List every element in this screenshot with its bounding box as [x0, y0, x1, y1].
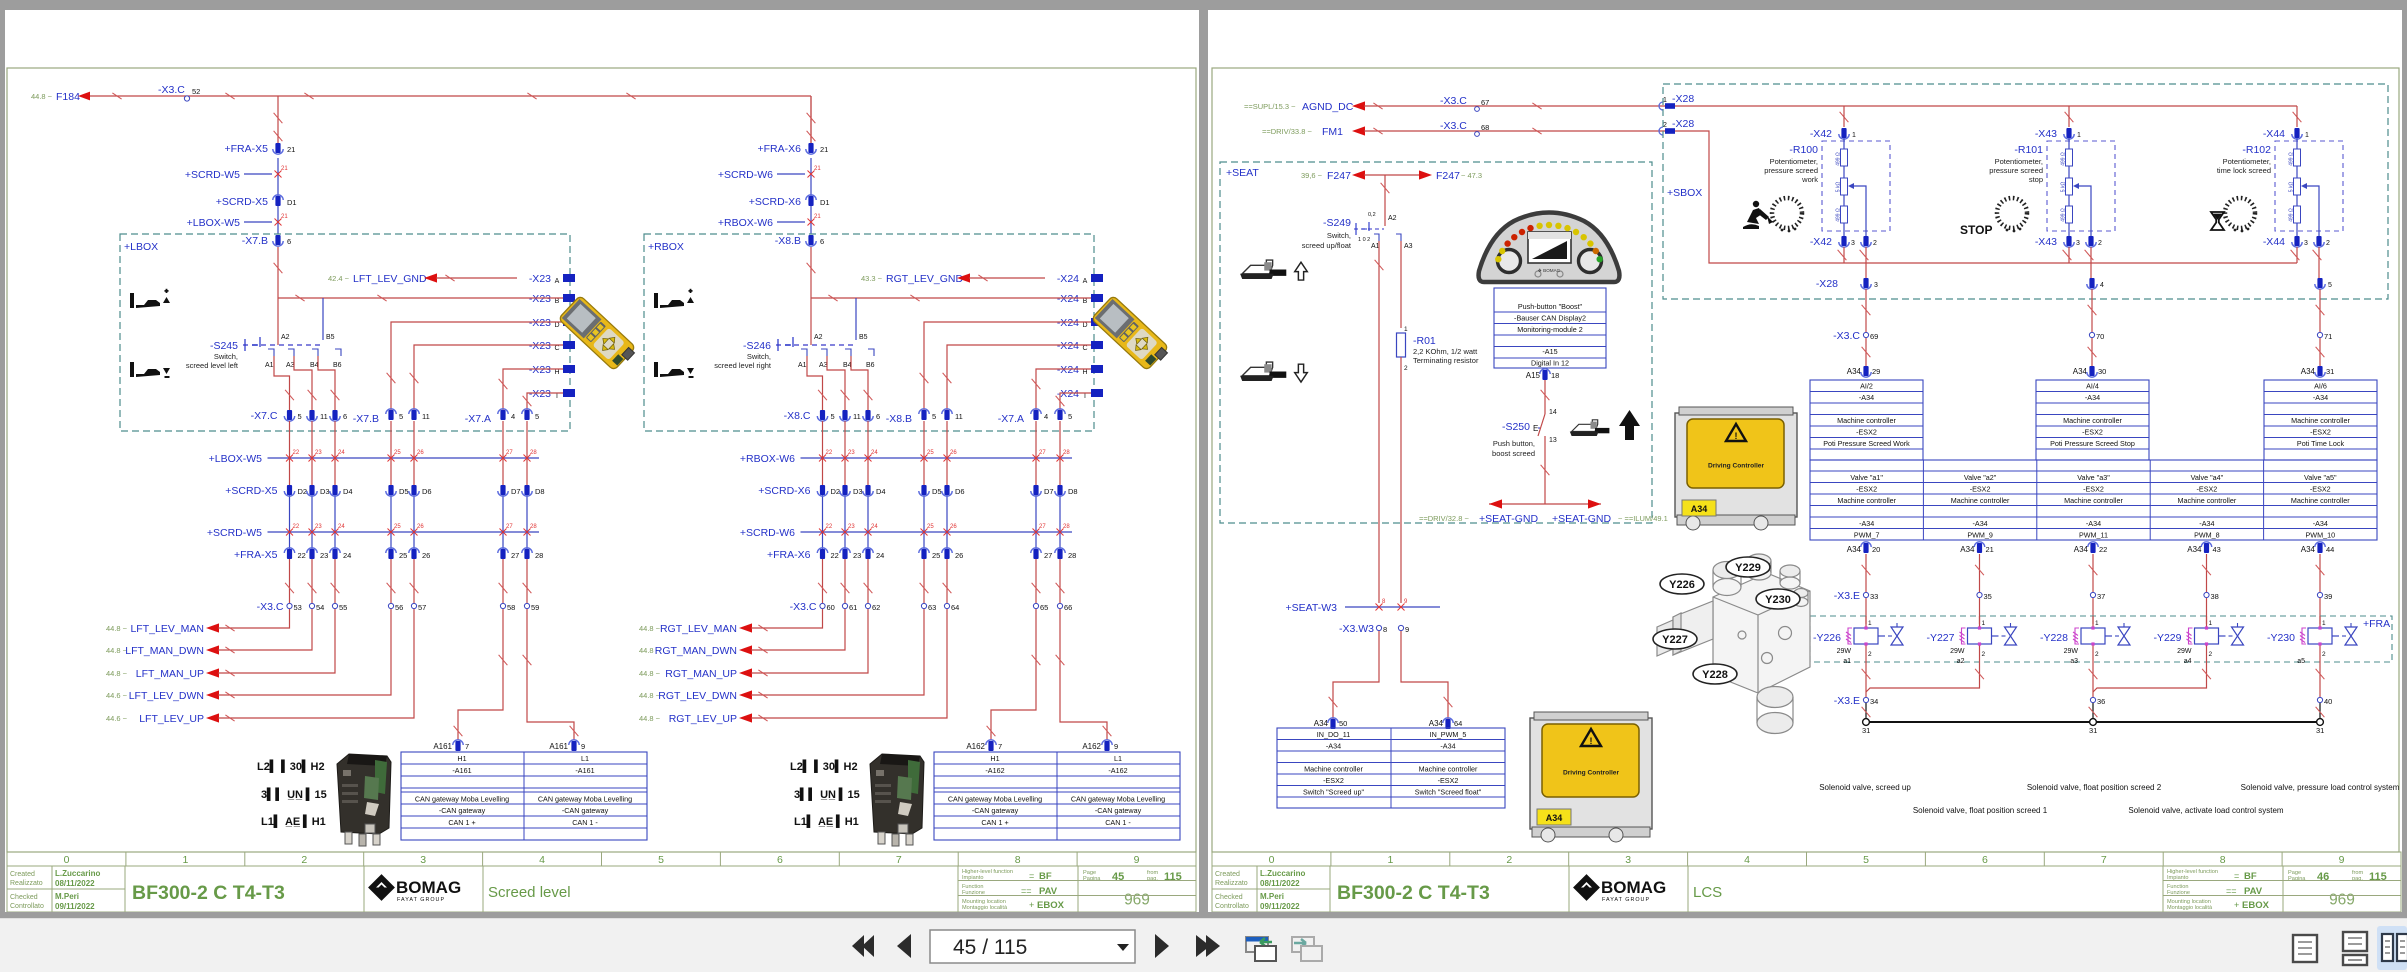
svg-text:LCS: LCS — [1693, 884, 1722, 901]
wire A3 column with R01 — [1400, 241, 1402, 328]
svg-text:45: 45 — [1112, 871, 1124, 883]
svg-text:A34: A34 — [1847, 545, 1862, 554]
seat boost icon — [1570, 420, 1610, 436]
svg-text:D4: D4 — [343, 487, 353, 496]
svg-text:-R102: -R102 — [2242, 144, 2271, 156]
wires switch to X7.C — [274, 356, 290, 410]
connector -X23 B — [517, 290, 563, 303]
connector -X23 D — [517, 314, 563, 327]
svg-text:CAN 1 +: CAN 1 + — [448, 818, 475, 827]
svg-text:L2▍ ▍30▍H2: L2▍ ▍30▍H2 — [790, 759, 858, 773]
table machine controller AI/6 — [2264, 380, 2377, 460]
svg-text:9: 9 — [1404, 599, 1408, 605]
svg-text:Valve "a3": Valve "a3" — [2077, 473, 2110, 482]
knob icon R101 — [1997, 198, 2027, 228]
relay device A162 photo — [870, 754, 924, 846]
relay device A161 photo — [337, 754, 391, 846]
svg-text:-X3.E: -X3.E — [1834, 695, 1860, 707]
svg-text:-A15: -A15 — [1542, 347, 1557, 356]
svg-text:08/11/2022: 08/11/2022 — [1260, 879, 1300, 888]
svg-text:screed level right: screed level right — [714, 361, 772, 370]
svg-text:A34: A34 — [2073, 367, 2088, 376]
svg-text:5: 5 — [2328, 282, 2332, 289]
svg-text:4: 4 — [511, 412, 515, 421]
svg-text:Valve "a2": Valve "a2" — [1964, 473, 1997, 482]
svg-text:23: 23 — [848, 524, 855, 530]
svg-text:a2: a2 — [1957, 658, 1965, 665]
svg-text:5 kΩ: 5 kΩ — [2061, 182, 2067, 193]
svg-text:35: 35 — [1984, 592, 1992, 601]
svg-text:3: 3 — [1625, 854, 1631, 866]
svg-text:+FRA-X6: +FRA-X6 — [758, 143, 802, 155]
seat icon up — [1240, 260, 1307, 280]
svg-text:-ESX2: -ESX2 — [2310, 428, 2331, 437]
svg-text:24: 24 — [876, 551, 884, 560]
svg-text:3: 3 — [420, 854, 426, 866]
svg-text:CAN 1 +: CAN 1 + — [981, 818, 1008, 827]
wire FM1 bus in SBOX — [1675, 131, 2297, 263]
svg-text:pag.: pag. — [1147, 876, 1158, 882]
svg-text:6: 6 — [820, 237, 824, 246]
svg-text:-X23: -X23 — [529, 364, 551, 376]
svg-text:screed level left: screed level left — [186, 361, 239, 370]
connector -X28 pin 4 — [2089, 278, 2094, 288]
svg-text:Switch "Screed up": Switch "Screed up" — [1303, 788, 1364, 797]
BOMAG logo — [1573, 874, 1666, 903]
svg-text:39: 39 — [2324, 592, 2332, 601]
svg-text:Realizzato: Realizzato — [10, 880, 43, 887]
ground bus 31 — [1866, 721, 2320, 723]
svg-text:7: 7 — [998, 742, 1002, 751]
svg-text:A34: A34 — [1546, 813, 1563, 823]
svg-text:B5: B5 — [859, 334, 868, 341]
toolbar next button — [1155, 934, 1169, 958]
svg-text:C: C — [1082, 345, 1087, 352]
svg-text:-A34: -A34 — [2085, 393, 2100, 402]
svg-text:work: work — [1801, 175, 1818, 184]
connector -X28 pin 5 — [2317, 278, 2322, 288]
svg-text:LFT_MAN_UP: LFT_MAN_UP — [136, 668, 204, 680]
svg-text:-X7.A: -X7.A — [465, 413, 491, 425]
svg-text:A34: A34 — [1314, 719, 1329, 728]
svg-text:-Bauser CAN Display2: -Bauser CAN Display2 — [1514, 314, 1586, 323]
svg-text:-X28: -X28 — [1816, 278, 1838, 290]
svg-text:21: 21 — [814, 166, 821, 172]
svg-text:1: 1 — [1852, 132, 1856, 139]
table valve outputs — [1810, 460, 2377, 540]
svg-text:Screed level: Screed level — [488, 884, 571, 901]
svg-text:4: 4 — [1044, 412, 1048, 421]
svg-text:Machine controller: Machine controller — [1837, 416, 1896, 425]
svg-text:2: 2 — [2098, 240, 2102, 247]
svg-text:499 Ω: 499 Ω — [2061, 208, 2067, 222]
svg-text:A34: A34 — [2074, 545, 2089, 554]
svg-text:29W: 29W — [1837, 648, 1852, 655]
svg-text:LFT_LEV_GND: LFT_LEV_GND — [353, 273, 427, 285]
connector -X24 I — [1045, 385, 1091, 398]
svg-text:A2: A2 — [1388, 215, 1397, 222]
svg-text:1: 1 — [1868, 620, 1872, 627]
svg-text:09/11/2022: 09/11/2022 — [1260, 902, 1300, 911]
table machine controller AI/4 — [2036, 380, 2149, 460]
svg-text:BOMAG: BOMAG — [1601, 878, 1666, 897]
svg-text:31: 31 — [2089, 726, 2097, 735]
svg-text:H1: H1 — [990, 754, 999, 763]
svg-text:4: 4 — [539, 854, 545, 866]
svg-text:25: 25 — [399, 551, 407, 560]
svg-text:31: 31 — [2316, 726, 2324, 735]
svg-text:57: 57 — [418, 603, 426, 612]
svg-text:-R101: -R101 — [2014, 144, 2043, 156]
svg-text:5: 5 — [535, 412, 539, 421]
svg-text:-X3.C: -X3.C — [257, 601, 284, 613]
svg-text:Montaggio località: Montaggio località — [962, 905, 1008, 911]
svg-text:C: C — [554, 345, 559, 352]
svg-text:3▍▍ U̲N̲ ▍15: 3▍▍ U̲N̲ ▍15 — [794, 787, 860, 801]
svg-text:IN_PWM_5: IN_PWM_5 — [1430, 730, 1467, 739]
wires to CAN gateway — [991, 609, 1036, 740]
svg-text:5 kΩ: 5 kΩ — [2289, 182, 2295, 193]
svg-text:21: 21 — [820, 145, 828, 154]
svg-text:-X23: -X23 — [529, 340, 551, 352]
svg-text:-X7.B: -X7.B — [353, 413, 379, 425]
svg-text:-ESX2: -ESX2 — [1856, 485, 1877, 494]
svg-text:2: 2 — [2326, 240, 2330, 247]
svg-text:68: 68 — [1481, 123, 1489, 132]
svg-text:-X8.B: -X8.B — [775, 235, 801, 247]
toolbar page input — [930, 930, 1135, 963]
svg-text:8: 8 — [1382, 599, 1386, 605]
svg-text:6: 6 — [287, 237, 291, 246]
svg-text:+SCRD-W6: +SCRD-W6 — [718, 169, 773, 181]
drawing frame page 1 — [7, 68, 1196, 852]
svg-text:A1: A1 — [798, 362, 807, 369]
svg-text:36: 36 — [2097, 697, 2105, 706]
svg-text:22: 22 — [293, 524, 300, 530]
svg-text:A2: A2 — [281, 334, 290, 341]
svg-text:D1: D1 — [820, 198, 830, 207]
svg-text:23: 23 — [315, 450, 322, 456]
svg-text:55: 55 — [339, 603, 347, 612]
corner to right feed column — [810, 96, 812, 143]
svg-text:28: 28 — [1068, 551, 1076, 560]
svg-text:21: 21 — [1986, 545, 1994, 554]
svg-text:-X3.C: -X3.C — [1833, 330, 1860, 342]
svg-text:D: D — [554, 322, 559, 329]
svg-text:+SEAT-GND: +SEAT-GND — [1552, 513, 1611, 525]
seat icon down — [1240, 362, 1307, 382]
connector -X24 C — [1045, 337, 1091, 350]
svg-text:B4: B4 — [310, 362, 319, 369]
hourglass icon — [2211, 212, 2224, 230]
svg-text:44.8 ~: 44.8 ~ — [639, 624, 661, 633]
svg-text:-X28: -X28 — [1672, 93, 1694, 105]
svg-text:-ESX2: -ESX2 — [1438, 776, 1459, 785]
svg-text:Poti Time Lock: Poti Time Lock — [2297, 439, 2345, 448]
svg-text:30: 30 — [2098, 367, 2106, 376]
svg-text:A34: A34 — [1429, 719, 1444, 728]
potentiometer -R101 — [2047, 141, 2115, 231]
wire feed to switch A2 — [277, 247, 279, 345]
svg-text:63: 63 — [928, 603, 936, 612]
svg-text:+FRA-X6: +FRA-X6 — [767, 549, 811, 561]
svg-text:-R01: -R01 — [1413, 335, 1436, 347]
svg-text:~ 47.3: ~ 47.3 — [1461, 171, 1482, 180]
svg-text:5: 5 — [932, 412, 936, 421]
svg-text:44.8 ~: 44.8 ~ — [639, 714, 661, 723]
svg-text:44.8 ~: 44.8 ~ — [31, 92, 53, 101]
svg-text:-X23: -X23 — [529, 388, 551, 400]
title block ruler row — [7, 852, 1196, 866]
svg-text:69: 69 — [1870, 332, 1878, 341]
svg-text:Y226: Y226 — [1669, 579, 1695, 591]
resistor -R01 — [1397, 333, 1406, 357]
svg-text:29W: 29W — [1950, 648, 1965, 655]
svg-text:a4: a4 — [2184, 658, 2192, 665]
potentiometer -R100 — [1822, 141, 1890, 231]
svg-text:50: 50 — [1339, 719, 1347, 728]
svg-text:Realizzato: Realizzato — [1215, 880, 1248, 887]
bottom toolbar — [0, 918, 2407, 972]
connector -X24 H — [1045, 361, 1091, 374]
knob icon R100 — [1772, 198, 1802, 228]
svg-text:-S250: -S250 — [1502, 421, 1530, 433]
svg-text:52: 52 — [192, 87, 200, 96]
svg-text:499 Ω: 499 Ω — [2061, 152, 2067, 166]
svg-text:31: 31 — [2326, 367, 2334, 376]
svg-text:-Y226: -Y226 — [1813, 632, 1841, 644]
svg-text:-CAN gateway: -CAN gateway — [972, 806, 1019, 815]
svg-text:-X23: -X23 — [529, 293, 551, 305]
svg-text:BF300-2 C T4-T3: BF300-2 C T4-T3 — [1337, 882, 1490, 904]
svg-text:2: 2 — [1982, 651, 1986, 658]
wire feed to switch A2 — [810, 247, 812, 345]
svg-text:27: 27 — [1044, 551, 1052, 560]
svg-text:Push button,: Push button, — [1493, 439, 1535, 448]
remote control left — [558, 295, 638, 372]
svg-text:7: 7 — [465, 742, 469, 751]
svg-text:screed up/float: screed up/float — [1302, 241, 1352, 250]
svg-text:2: 2 — [2322, 651, 2326, 658]
svg-text:31: 31 — [1862, 726, 1870, 735]
svg-text:A2: A2 — [814, 334, 823, 341]
svg-text:27: 27 — [1039, 524, 1046, 530]
svg-text:25: 25 — [927, 524, 934, 530]
svg-text:+RBOX: +RBOX — [648, 241, 684, 253]
svg-text:22: 22 — [831, 551, 839, 560]
svg-text:Checked: Checked — [10, 894, 38, 901]
svg-text:2,2 KOhm, 1/2 watt: 2,2 KOhm, 1/2 watt — [1413, 347, 1478, 356]
svg-text:CAN gateway Moba Levelling: CAN gateway Moba Levelling — [538, 795, 632, 804]
svg-text:43.3 ~: 43.3 ~ — [861, 274, 883, 283]
remote control right — [1091, 295, 1171, 372]
svg-text:Machine controller: Machine controller — [1419, 765, 1478, 774]
svg-text:43: 43 — [2213, 545, 2221, 554]
svg-text:+LBOX-W5: +LBOX-W5 — [187, 217, 241, 229]
svg-text:D3: D3 — [320, 487, 330, 496]
svg-text:46: 46 — [2317, 871, 2329, 883]
svg-text:FAYAT GROUP: FAYAT GROUP — [397, 897, 445, 903]
svg-text:-X3.C: -X3.C — [1440, 95, 1467, 107]
svg-text:Machine controller: Machine controller — [2291, 496, 2350, 505]
wire B5 drop — [855, 298, 857, 340]
svg-text:45 / 115: 45 / 115 — [953, 936, 1027, 959]
svg-text:24: 24 — [338, 524, 345, 530]
svg-text:499 Ω: 499 Ω — [2289, 208, 2295, 222]
svg-text:22: 22 — [298, 551, 306, 560]
svg-text:7: 7 — [2101, 854, 2107, 866]
wire S250 column — [1544, 380, 1546, 414]
svg-text:-R100: -R100 — [1789, 144, 1818, 156]
svg-text:-ESX2: -ESX2 — [2197, 485, 2218, 494]
wires columns below box — [289, 421, 291, 490]
svg-text:9: 9 — [1405, 625, 1409, 634]
svg-text:-X23: -X23 — [529, 273, 551, 285]
hydraulic valve block drawing — [1657, 554, 1810, 734]
svg-text:AI/4: AI/4 — [2086, 382, 2099, 391]
svg-text:EBOX: EBOX — [2242, 900, 2270, 911]
svg-text:Y228: Y228 — [1702, 669, 1728, 681]
svg-text:Switch,: Switch, — [747, 352, 771, 361]
table CAN gateway A161 — [401, 752, 647, 840]
toolbar first-page button — [852, 935, 864, 957]
title block main row — [1212, 866, 2401, 912]
wiper wire — [2073, 183, 2079, 189]
svg-text:67: 67 — [1481, 98, 1489, 107]
svg-text:A34: A34 — [1960, 545, 1975, 554]
svg-text:+FRA-X5: +FRA-X5 — [234, 549, 278, 561]
svg-text:21: 21 — [814, 214, 821, 220]
svg-text:A: A — [1083, 278, 1088, 285]
svg-text:34: 34 — [1870, 697, 1878, 706]
svg-text:65: 65 — [1040, 603, 1048, 612]
svg-text:-X23: -X23 — [529, 317, 551, 329]
svg-text:BF300-2 C T4-T3: BF300-2 C T4-T3 — [132, 882, 285, 904]
svg-text:D: D — [1082, 322, 1087, 329]
svg-text:-A34: -A34 — [1859, 519, 1874, 528]
svg-text:1: 1 — [1404, 326, 1408, 333]
svg-text:LFT_LEV_DWN: LFT_LEV_DWN — [129, 690, 204, 702]
svg-text:LFT_MAN_DWN: LFT_MAN_DWN — [125, 645, 204, 657]
svg-text:Potentiometer,: Potentiometer, — [1770, 157, 1818, 166]
wire branch to -X23 B — [278, 297, 563, 299]
svg-text:A1: A1 — [1371, 243, 1380, 250]
svg-text:29W: 29W — [2064, 648, 2079, 655]
svg-text:Controllato: Controllato — [1215, 903, 1249, 910]
svg-text:-S245: -S245 — [210, 340, 238, 352]
svg-text:6: 6 — [343, 412, 347, 421]
svg-text:EBOX: EBOX — [1037, 900, 1065, 911]
svg-text:L1▍ A̲E̲ ▍H1: L1▍ A̲E̲ ▍H1 — [794, 814, 859, 828]
svg-text:2: 2 — [1873, 240, 1877, 247]
svg-text:+SEAT-GND: +SEAT-GND — [1479, 513, 1538, 525]
svg-text:~ ==ILUM/49.1: ~ ==ILUM/49.1 — [1618, 514, 1668, 523]
svg-text:70: 70 — [2096, 332, 2104, 341]
svg-text:23: 23 — [315, 524, 322, 530]
svg-text:27: 27 — [506, 450, 513, 456]
svg-text:-X24: -X24 — [1057, 273, 1079, 285]
connector -X23 H — [517, 361, 563, 374]
svg-text:11: 11 — [955, 412, 963, 421]
knob icon R102 — [2225, 198, 2255, 228]
svg-text:44.8 ~: 44.8 ~ — [106, 624, 128, 633]
svg-text:5: 5 — [658, 854, 664, 866]
potentiometer -R102 — [2275, 141, 2343, 231]
svg-text:L.Zuccarino: L.Zuccarino — [1260, 869, 1305, 878]
svg-text:B: B — [555, 298, 560, 305]
svg-text:Machine controller: Machine controller — [2063, 416, 2122, 425]
svg-text:28: 28 — [1063, 524, 1070, 530]
svg-text:24: 24 — [343, 551, 351, 560]
svg-text:9: 9 — [1114, 742, 1118, 751]
svg-text:29: 29 — [1872, 367, 1880, 376]
connector -X23 I — [517, 385, 563, 398]
svg-text:I: I — [556, 393, 558, 400]
svg-text:-X8.B: -X8.B — [886, 413, 912, 425]
svg-text:3: 3 — [2076, 240, 2080, 247]
svg-text:-A34: -A34 — [2086, 519, 2101, 528]
svg-text:2: 2 — [1506, 854, 1512, 866]
svg-text:-Y229: -Y229 — [2153, 632, 2181, 644]
svg-text:+SCRD-W5: +SCRD-W5 — [185, 169, 240, 181]
svg-text:A161: A161 — [433, 742, 452, 751]
svg-text:-X3.C: -X3.C — [1440, 120, 1467, 132]
svg-text:499 Ω: 499 Ω — [1836, 208, 1842, 222]
svg-text:44.6 ~: 44.6 ~ — [106, 714, 128, 723]
svg-text:B: B — [1083, 298, 1088, 305]
svg-text:L1: L1 — [1114, 754, 1122, 763]
svg-text:-X42: -X42 — [1810, 128, 1832, 140]
svg-text:RGT_LEV_UP: RGT_LEV_UP — [669, 713, 737, 725]
svg-text:AI/6: AI/6 — [2314, 382, 2327, 391]
svg-text:=: = — [2234, 871, 2239, 881]
wire feed column right — [810, 96, 812, 143]
svg-text:71: 71 — [2324, 332, 2332, 341]
svg-text:-A34: -A34 — [2199, 519, 2214, 528]
svg-text:Machine controller: Machine controller — [1837, 496, 1896, 505]
svg-text:-Y230: -Y230 — [2267, 632, 2295, 644]
svg-text:969: 969 — [2329, 892, 2355, 909]
svg-text:-S246: -S246 — [743, 340, 771, 352]
svg-text:Machine controller: Machine controller — [2064, 496, 2123, 505]
svg-text:pag.: pag. — [2352, 876, 2363, 882]
table monitoring module — [1494, 288, 1606, 368]
svg-text:Machine controller: Machine controller — [2291, 416, 2350, 425]
svg-text:Controllato: Controllato — [10, 903, 44, 910]
svg-text:20: 20 — [1872, 545, 1880, 554]
svg-text:-X44: -X44 — [2263, 128, 2285, 140]
svg-text:38: 38 — [2211, 592, 2219, 601]
svg-text:IN_DO_11: IN_DO_11 — [1317, 730, 1350, 739]
svg-text:BOMAG: BOMAG — [396, 878, 461, 897]
svg-text:Solenoid valve, float position: Solenoid valve, float position screed 1 — [1913, 806, 2048, 815]
svg-text:23: 23 — [320, 551, 328, 560]
switch -S250 — [1538, 414, 1545, 436]
wiper wire — [2301, 183, 2307, 189]
svg-text:28: 28 — [535, 551, 543, 560]
valve callout Y226 — [1660, 574, 1704, 594]
svg-text:+FRA-X5: +FRA-X5 — [225, 143, 269, 155]
svg-text:26: 26 — [422, 551, 430, 560]
svg-text:-ESX2: -ESX2 — [2310, 485, 2331, 494]
svg-text:RGT_MAN_DWN: RGT_MAN_DWN — [655, 645, 737, 657]
svg-text:L.Zuccarino: L.Zuccarino — [55, 869, 100, 878]
svg-text:D7: D7 — [511, 487, 521, 496]
view single page icon — [2293, 935, 2317, 962]
svg-text:-X7.A: -X7.A — [998, 413, 1024, 425]
svg-text:A34: A34 — [1691, 504, 1708, 514]
svg-text:Monitoring-module 2: Monitoring-module 2 — [1517, 325, 1583, 334]
